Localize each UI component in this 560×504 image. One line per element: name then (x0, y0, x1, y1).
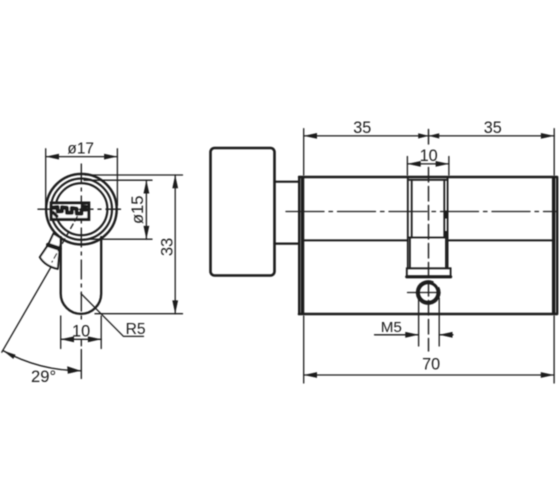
dim Ø15: arrows (144, 180, 150, 239)
dim 70: extension lines (304, 316, 554, 383)
dim 10 cam: arrows (407, 161, 449, 167)
dim 35/35: extension lines (304, 129, 555, 175)
angle leg thin line (2, 267, 52, 353)
dim 33: extension lines (85, 175, 183, 314)
thumbturn knob (211, 148, 275, 276)
dim 33: dimension line (174, 175, 176, 314)
key profile blob right (83, 204, 87, 208)
dim Ø15: dimension line (145, 180, 147, 239)
M5 screw hole circle (418, 283, 438, 303)
dim 10 foot: extension lines (61, 316, 101, 349)
dim M5: dimension line with outside arrows (375, 334, 454, 336)
svg-text:ø17: ø17 (67, 140, 94, 157)
horizontal center line (38, 208, 121, 210)
svg-text:R5: R5 (126, 321, 146, 338)
angle arc 29deg (3, 351, 82, 371)
dim 33: arrows (172, 175, 178, 314)
cam bottom flange (407, 268, 451, 276)
dim Ø17: dimension line (46, 156, 118, 158)
body right face (554, 177, 557, 314)
body top edge (299, 176, 557, 178)
svg-text:35: 35 (353, 119, 371, 137)
key axis dashed line 29deg (52, 209, 81, 262)
M5 thread arc (416, 281, 439, 304)
dim 10 cam: dimension line (407, 163, 449, 165)
svg-text:29°: 29° (31, 367, 56, 386)
dim 10 foot: arrows (61, 336, 101, 342)
key shoulder thick band (48, 245, 59, 249)
cylinder/foot parting line (302, 239, 554, 241)
cam notch right (444, 211, 448, 219)
key profile blob left (53, 213, 57, 217)
vertical center line (80, 164, 82, 322)
body right face chamfer line (552, 178, 554, 313)
dim Ø17: extension lines (46, 149, 118, 206)
dim M5: arrows (405, 332, 452, 338)
cam top edge (408, 179, 448, 181)
key profile meander inside keyway (54, 207, 87, 214)
cam notch right lower (444, 231, 447, 237)
svg-text:M5: M5 (381, 319, 402, 336)
dim 70: arrows (304, 372, 554, 378)
side view center line (286, 211, 557, 213)
svg-text:ø15: ø15 (129, 196, 147, 224)
cam shelf line (408, 237, 448, 239)
dim R5: leader line (81, 294, 144, 337)
dim Ø15: extension lines (84, 180, 152, 239)
arrowhead at angle arc start (3, 351, 16, 359)
svg-text:10: 10 (72, 323, 90, 341)
cylinder body (foot) outline (61, 237, 101, 314)
cam flange heavy bottom (407, 275, 451, 278)
dim 10 cam: extension lines (407, 157, 449, 176)
M5 hole horizontal tick (408, 292, 441, 294)
body left face (299, 177, 302, 314)
body bottom edge (299, 313, 557, 316)
cam slot left lines (408, 177, 412, 268)
svg-text:10: 10 (420, 147, 438, 165)
keyway rectangle (51, 203, 89, 219)
svg-text:35: 35 (484, 119, 502, 137)
svg-text:33: 33 (158, 238, 176, 256)
arrowhead of angle arc (67, 366, 80, 374)
cylinder face outer circle (46, 174, 117, 245)
cam slot right lines (444, 177, 447, 268)
cam lower sides (410, 238, 446, 269)
dim 35/35: arrows (304, 133, 555, 139)
dim M5: extension lines (419, 298, 440, 346)
center line lower solid segments (80, 340, 82, 379)
dim 70: dimension line (304, 374, 554, 376)
key silhouette white-filled (40, 234, 62, 269)
knob neck top (275, 181, 300, 183)
knob neck bottom (275, 243, 300, 245)
dim Ø17: arrows (46, 154, 118, 160)
cylinder face ring circle (51, 179, 112, 240)
dim 10 foot: dimension line (61, 338, 101, 340)
cam vertical center line (428, 130, 430, 352)
plug circle (55, 183, 107, 235)
svg-text:70: 70 (422, 355, 440, 373)
body left face chamfer line (303, 178, 305, 313)
dim 35/35: dimension line (304, 135, 555, 137)
